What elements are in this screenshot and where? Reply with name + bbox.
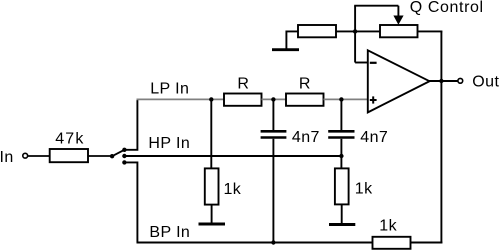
- wire R3 to ground: [211, 205, 213, 223]
- svg-text:1k: 1k: [355, 181, 373, 198]
- resistor R3 1k: [205, 168, 219, 204]
- wire 47k to switch pole: [88, 155, 112, 157]
- svg-text:Out: Out: [472, 74, 499, 91]
- wire LP line gray: [137, 98, 226, 100]
- node E junction dot on BP line: [271, 240, 275, 244]
- wire BP contact to dropper: [124, 162, 137, 242]
- ground bar feedback resistor: [272, 48, 299, 51]
- capacitor C1 4n7 plates: [261, 131, 287, 137]
- wire to op-amp minus input: [355, 62, 367, 64]
- node D junction dot HP at C2 bottom: [339, 154, 343, 158]
- svg-text:LP In: LP In: [150, 81, 189, 98]
- switch SW1 lever: [112, 150, 124, 156]
- op-amp minus symbol: [370, 62, 377, 64]
- op-amp U1: [368, 50, 430, 112]
- resistor R4 1k: [335, 168, 349, 204]
- capacitor C2 4n7 plates: [328, 131, 354, 137]
- op-amp plus symbol: [370, 96, 377, 103]
- svg-text:1k: 1k: [379, 218, 397, 235]
- wire arrow shaft: [397, 6, 399, 16]
- switch SW1 pole dot: [110, 154, 114, 158]
- wire LP contact to riser: [124, 100, 137, 150]
- wire node A down to R3: [210, 99, 212, 168]
- wire In terminal to 47k: [28, 155, 50, 157]
- resistor R1: [224, 94, 262, 106]
- wire R6 to node F: [336, 30, 355, 32]
- node G output junction dot: [439, 79, 443, 83]
- svg-text:4n7: 4n7: [292, 129, 320, 146]
- wire node B down to C1: [272, 99, 274, 130]
- svg-text:HP In: HP In: [148, 135, 190, 152]
- svg-text:47k: 47k: [55, 131, 84, 148]
- wire ground to R6: [286, 31, 298, 48]
- node F junction dot feedback: [353, 29, 357, 33]
- wire right vertical feedback: [440, 31, 442, 243]
- svg-text:Q Control: Q Control: [410, 0, 484, 16]
- wire feedback top horizontal: [354, 5, 398, 7]
- resistor R2: [286, 94, 324, 106]
- wire node C down to C2: [340, 99, 342, 130]
- wire R4 to ground: [341, 204, 343, 223]
- resistor R6 feedback: [298, 25, 336, 37]
- svg-text:R: R: [299, 75, 311, 92]
- potentiometer VR1 Q control: [380, 25, 418, 37]
- node C junction dot at op-amp +: [339, 97, 343, 101]
- wire minus branch vertical: [354, 6, 356, 63]
- wire C1 down to BP line: [272, 139, 274, 243]
- switch SW1 contact LP dot: [122, 148, 126, 152]
- wire R5 to right vertical: [411, 242, 443, 244]
- resistor R5 1k: [373, 237, 411, 249]
- node In terminal: [23, 153, 28, 158]
- resistor 47k: [50, 149, 88, 162]
- wire potentiometer to right vertical: [418, 30, 443, 32]
- switch SW1 contact HP dot: [122, 154, 126, 158]
- wire op-amp output: [429, 80, 458, 82]
- svg-text:In: In: [0, 149, 14, 166]
- node B junction dot between R1 R2: [271, 97, 275, 101]
- wire HP line: [124, 155, 341, 157]
- wire R1 to node B gray: [262, 98, 287, 100]
- wire node F to potentiometer: [355, 30, 380, 32]
- svg-text:4n7: 4n7: [360, 129, 388, 146]
- wire R2 to op-amp + gray: [324, 98, 368, 100]
- ground bar R4: [329, 223, 355, 226]
- svg-text:BP In: BP In: [149, 224, 190, 241]
- wire BP line: [137, 242, 373, 244]
- node A junction dot on LP line: [209, 97, 213, 101]
- wire C2 down to R4: [340, 139, 342, 169]
- svg-text:R: R: [237, 75, 249, 92]
- ground bar R3: [199, 223, 226, 226]
- node Out terminal: [458, 78, 463, 83]
- arrowhead onto potentiometer: [393, 16, 403, 25]
- switch SW1 contact BP dot: [122, 160, 126, 164]
- svg-text:1k: 1k: [224, 181, 242, 198]
